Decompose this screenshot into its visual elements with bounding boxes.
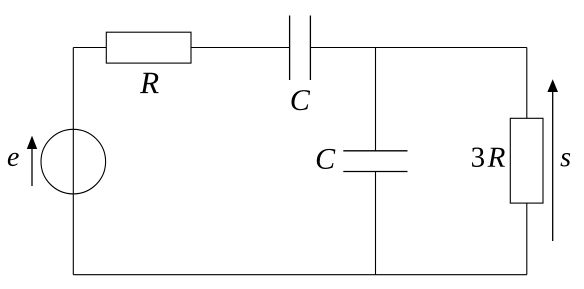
label s bbox=[561, 153, 571, 166]
resistor 3R bbox=[510, 118, 543, 203]
label C (series capacitor) bbox=[291, 90, 310, 110]
wire middle vertical lower bbox=[375, 172, 377, 275]
label e bbox=[8, 153, 19, 166]
label 3R bbox=[472, 147, 484, 166]
wire bottom horizontal bbox=[73, 274, 527, 276]
wire right vertical lower bbox=[526, 203, 528, 275]
wire right vertical upper bbox=[526, 48, 528, 119]
capacitor C2 (parallel) bbox=[343, 151, 407, 172]
label C (parallel capacitor) bbox=[317, 149, 336, 169]
arrow s (output voltage) bbox=[547, 79, 558, 241]
arrow e (source polarity) bbox=[27, 136, 37, 186]
wire left vertical (source branch) bbox=[72, 48, 74, 275]
voltage source circle bbox=[41, 129, 106, 194]
label R bbox=[140, 73, 159, 93]
wire top: capacitor C1 to right bbox=[310, 47, 526, 49]
wire top: left node to resistor R bbox=[73, 47, 106, 49]
resistor R bbox=[106, 32, 191, 63]
wire top: resistor R to capacitor C1 bbox=[191, 47, 290, 49]
node middle junction / wire middle vertical upper bbox=[375, 48, 377, 151]
capacitor C1 (series) bbox=[290, 16, 311, 81]
